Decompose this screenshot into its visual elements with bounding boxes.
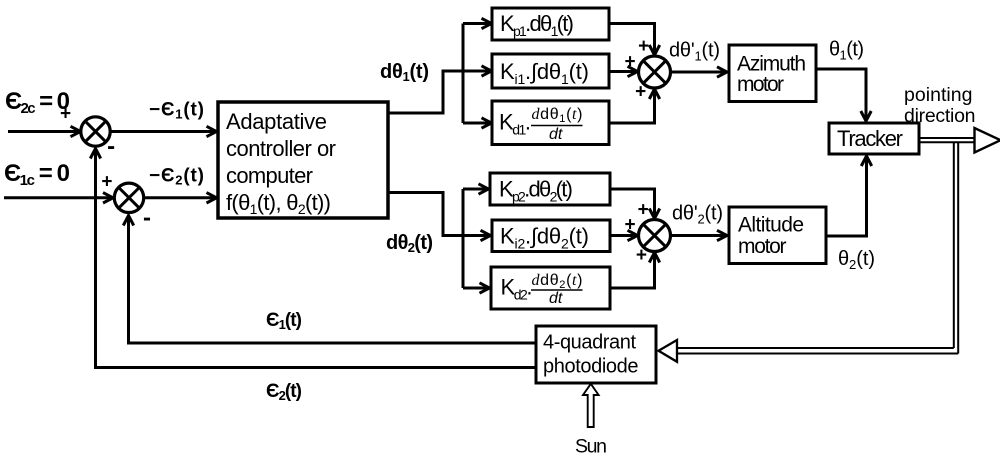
svg-text:Tracker: Tracker (837, 126, 903, 151)
svg-text:-: - (107, 133, 115, 160)
svg-text:+: + (638, 200, 649, 221)
svg-text:Є1(t): Є1(t) (266, 310, 302, 332)
svg-text:Adaptative: Adaptative (226, 109, 327, 134)
svg-text:photodiode: photodiode (543, 355, 639, 377)
svg-text:−Є1(t): −Є1(t) (149, 100, 204, 122)
svg-text:dθ1(t): dθ1(t) (380, 61, 429, 84)
svg-text:+: + (635, 82, 646, 103)
svg-text:4-quadrant: 4-quadrant (543, 331, 636, 353)
svg-text:pointing: pointing (904, 84, 973, 106)
svg-text:motor: motor (738, 235, 787, 258)
svg-text:Є2(t): Є2(t) (266, 381, 302, 403)
svg-text:ddθ2(t): ddθ2(t) (532, 272, 583, 291)
svg-text:θ2(t): θ2(t) (838, 248, 875, 272)
svg-text:−Є2(t): −Є2(t) (149, 166, 204, 188)
svg-text:Kp1.dθ1(t): Kp1.dθ1(t) (500, 11, 574, 39)
svg-text:direction: direction (904, 105, 976, 127)
svg-text:dθ2(t): dθ2(t) (386, 232, 433, 255)
svg-text:+: + (624, 214, 635, 235)
svg-text:f(θ1(t), θ2(t)): f(θ1(t), θ2(t)) (226, 190, 331, 217)
svg-text:Є1c = 0: Є1c = 0 (4, 160, 70, 189)
svg-text:dt: dt (549, 290, 563, 307)
svg-text:Kp2.dθ2(t): Kp2.dθ2(t) (499, 177, 573, 205)
svg-text:Sun: Sun (575, 436, 607, 456)
svg-text:Ki2.∫dθ2(t): Ki2.∫dθ2(t) (500, 224, 589, 252)
svg-text:+: + (101, 171, 112, 192)
svg-text:Altitude: Altitude (738, 214, 804, 237)
svg-text:Ki1.∫dθ1(t): Ki1.∫dθ1(t) (500, 59, 589, 87)
svg-text:controller or: controller or (226, 136, 336, 161)
svg-text:Є2c = 0: Є2c = 0 (5, 88, 70, 117)
svg-text:motor: motor (737, 73, 784, 96)
svg-text:-: - (143, 204, 151, 231)
svg-text:+: + (636, 245, 647, 266)
svg-text:dθ'1(t): dθ'1(t) (669, 40, 720, 64)
svg-text:θ1(t): θ1(t) (829, 39, 864, 63)
svg-text:dθ'2(t): dθ'2(t) (672, 203, 723, 227)
svg-text:+: + (638, 36, 649, 57)
svg-text:+: + (624, 51, 635, 72)
svg-text:dt: dt (549, 126, 563, 143)
svg-text:computer: computer (226, 163, 313, 188)
svg-text:ddθ1(t): ddθ1(t) (532, 106, 583, 125)
